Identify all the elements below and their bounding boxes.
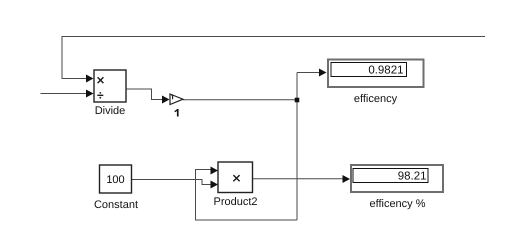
svg-text:Product2: Product2 (213, 196, 257, 208)
svg-text:efficency %: efficency % (369, 198, 425, 210)
svg-text:100: 100 (106, 174, 124, 186)
svg-text:0.9821: 0.9821 (368, 64, 403, 76)
svg-text:Divide: Divide (95, 105, 126, 117)
svg-text:98.21: 98.21 (398, 170, 427, 182)
svg-text:Constant: Constant (94, 199, 138, 211)
svg-text:efficency: efficency (354, 93, 398, 105)
